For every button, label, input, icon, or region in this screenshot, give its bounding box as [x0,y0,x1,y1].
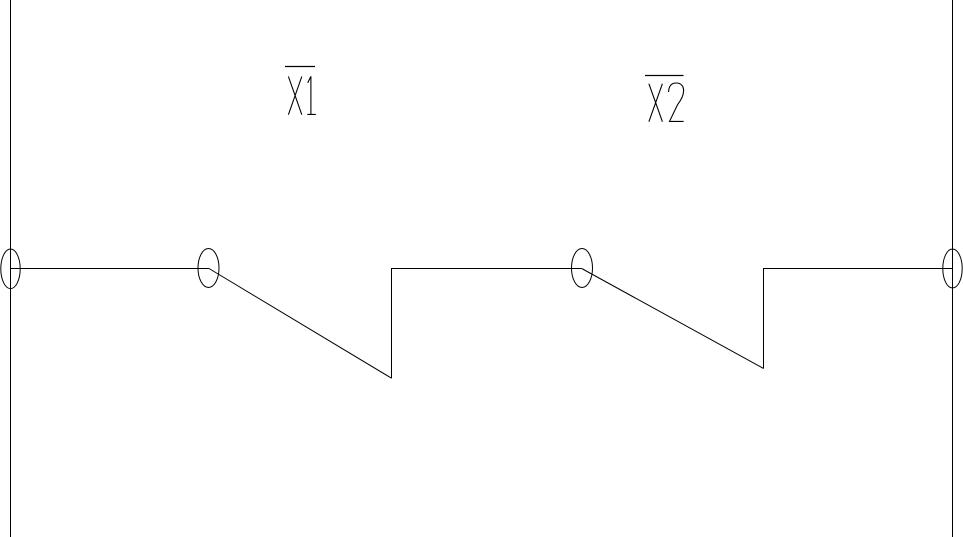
wire [392,268,582,270]
contact X1 left terminal node [198,249,219,288]
contact X1 right terminal riser [391,268,393,378]
left power rail [10,0,12,537]
wire [11,268,210,270]
contact X2 blade [582,269,764,369]
terminal node left rail [1,249,20,289]
right power rail [952,0,954,537]
wire [764,268,953,270]
label X2 overline [645,75,684,77]
label X1 overline [285,66,315,68]
contact X2 right terminal riser [763,268,765,369]
contact X1 blade [209,269,392,379]
label X1 text [288,76,315,114]
contact X2 left terminal node [572,249,593,288]
label X2 text [649,83,684,122]
terminal node right rail [943,249,962,288]
